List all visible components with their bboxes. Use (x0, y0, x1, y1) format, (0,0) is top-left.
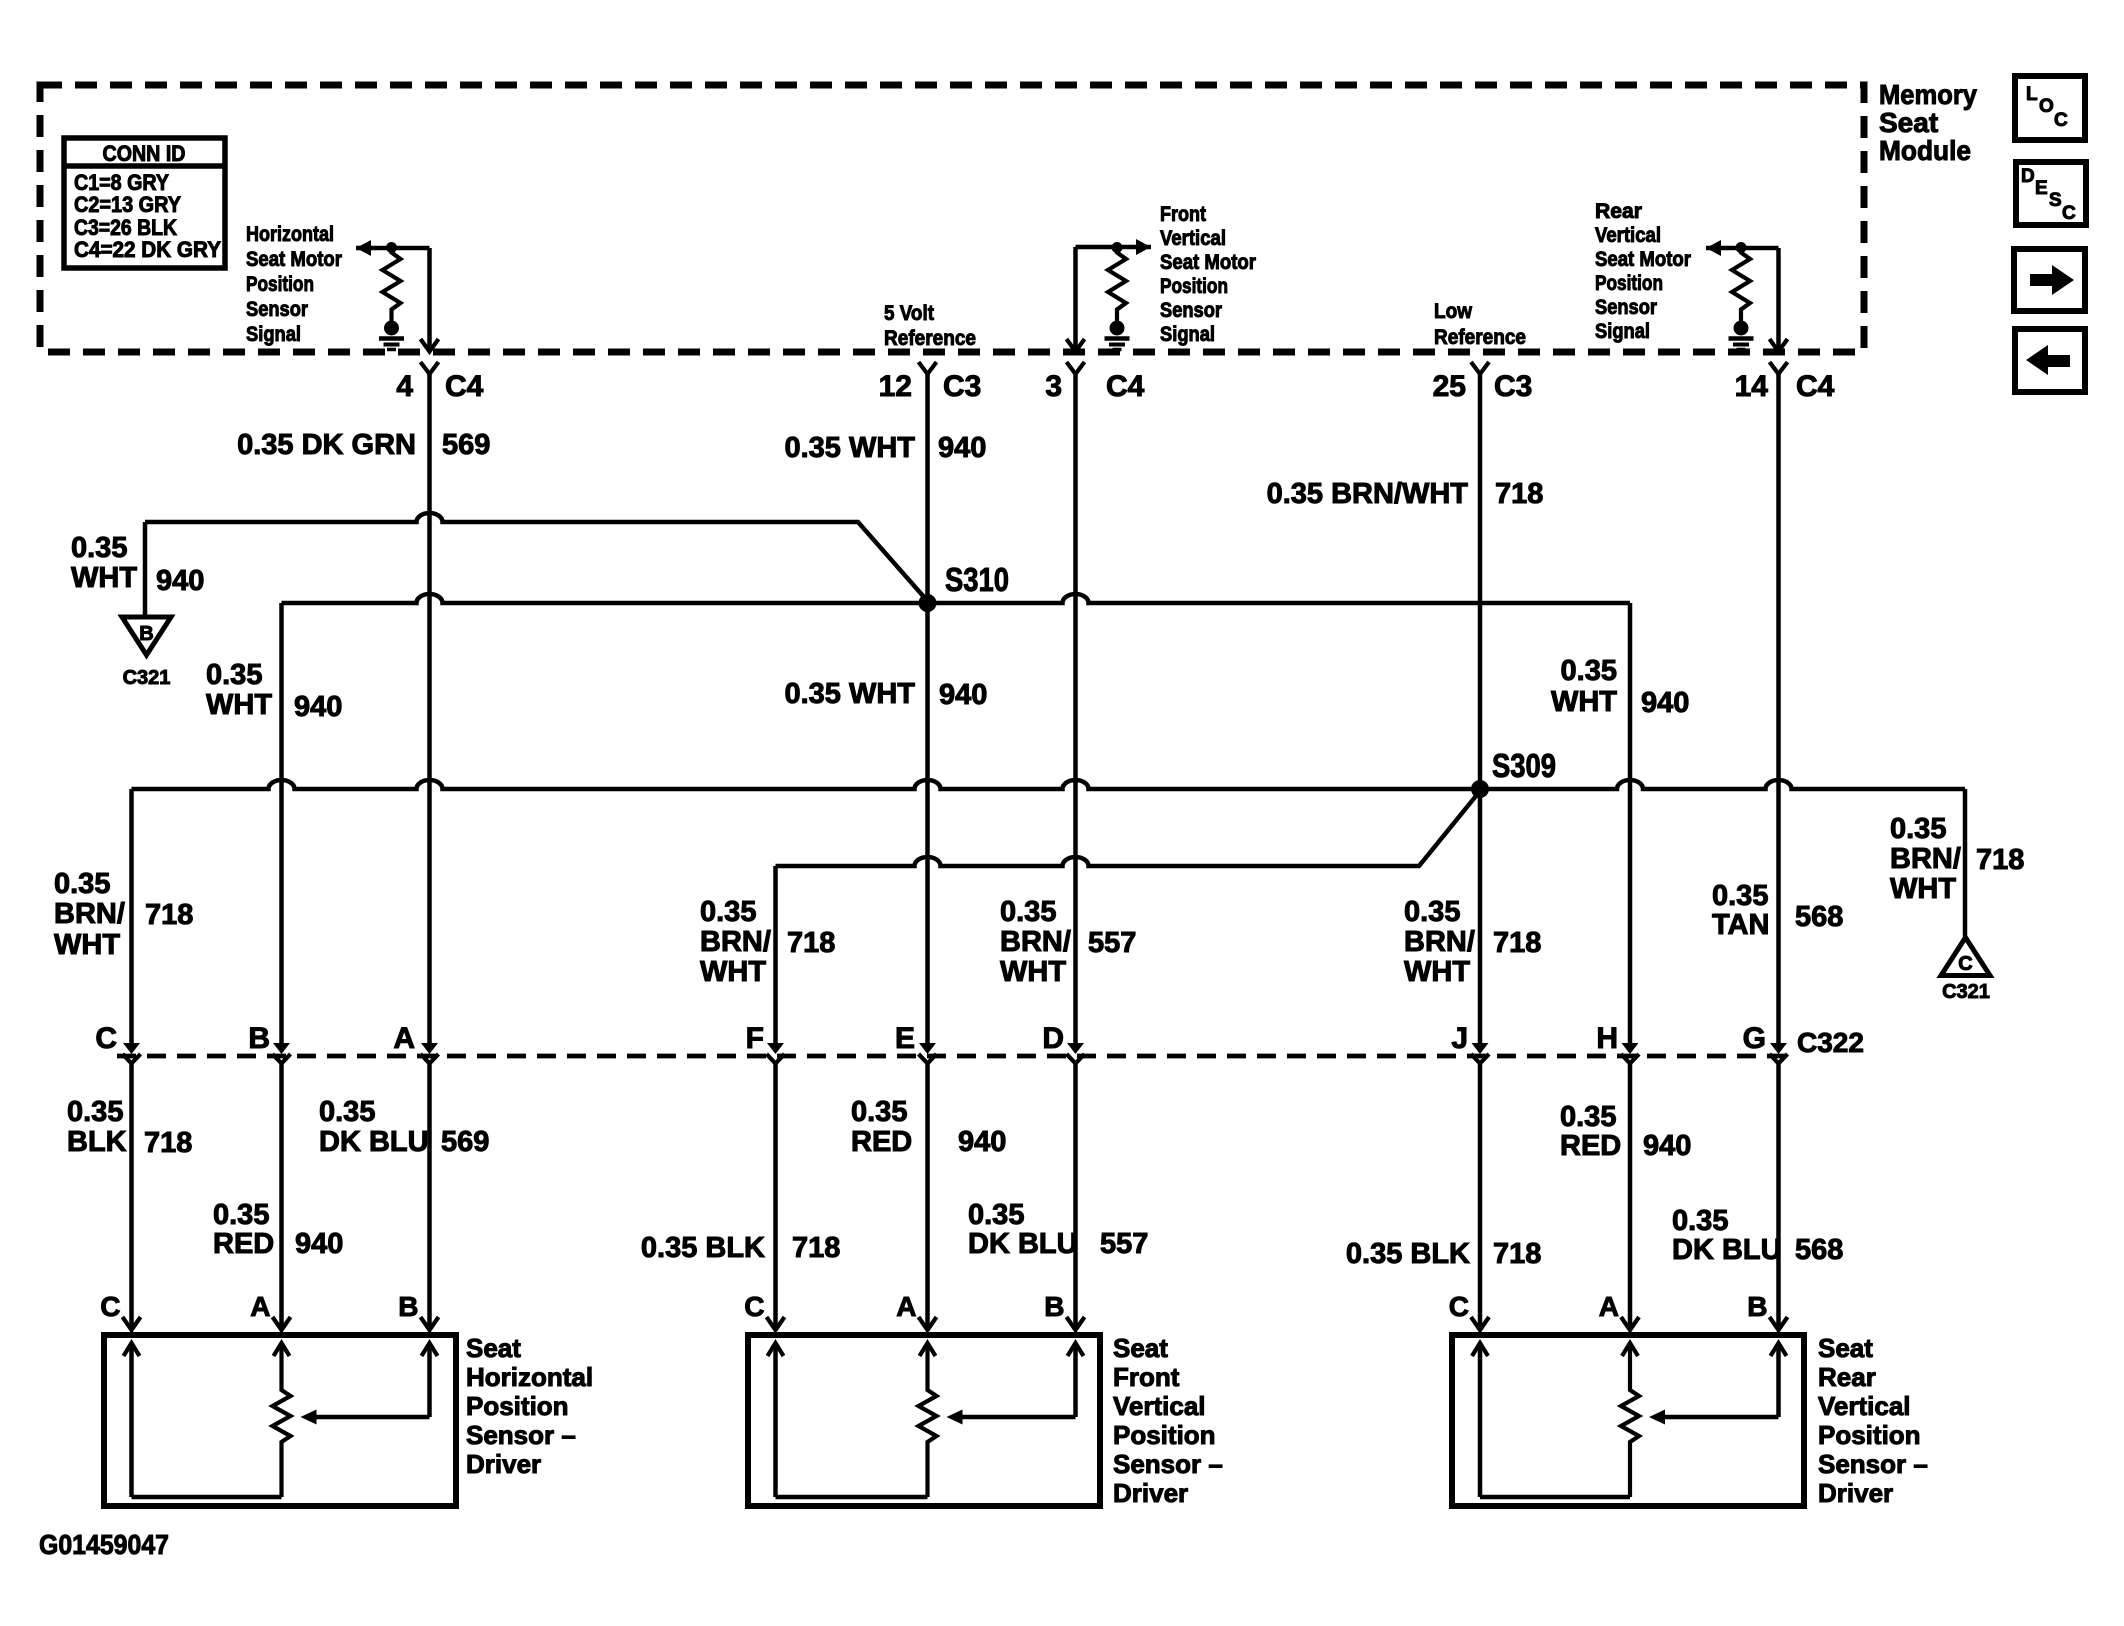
svg-text:G01459047: G01459047 (39, 1529, 169, 1560)
svg-text:BRN/: BRN/ (700, 926, 771, 958)
svg-text:WHT: WHT (1551, 686, 1617, 718)
svg-text:C: C (2062, 203, 2076, 224)
svg-text:Driver: Driver (1113, 1478, 1188, 1508)
svg-text:Sensor: Sensor (1595, 295, 1658, 319)
svg-text:0.35 WHT: 0.35 WHT (784, 678, 915, 710)
svg-text:Vertical: Vertical (1818, 1391, 1911, 1421)
svg-text:WHT: WHT (206, 689, 272, 721)
svg-text:B: B (398, 1291, 418, 1322)
svg-text:718: 718 (1493, 927, 1541, 959)
svg-text:BRN/: BRN/ (1890, 843, 1961, 875)
svg-text:Position: Position (246, 272, 314, 296)
svg-text:WHT: WHT (1890, 873, 1956, 905)
svg-text:TAN: TAN (1712, 909, 1769, 941)
svg-text:Seat: Seat (1818, 1333, 1873, 1363)
svg-text:WHT: WHT (54, 929, 120, 961)
svg-text:0.35 BRN/WHT: 0.35 BRN/WHT (1267, 478, 1469, 510)
svg-text:C4: C4 (1106, 370, 1145, 403)
svg-text:718: 718 (792, 1232, 840, 1264)
svg-text:0.35: 0.35 (851, 1096, 907, 1128)
svg-text:C: C (100, 1291, 120, 1322)
svg-text:RED: RED (851, 1126, 912, 1158)
svg-text:12: 12 (879, 370, 912, 403)
svg-text:BRN/: BRN/ (54, 898, 125, 930)
svg-text:D: D (2021, 166, 2035, 187)
svg-text:Rear: Rear (1595, 199, 1643, 223)
svg-text:Seat: Seat (1879, 107, 1938, 138)
svg-text:C2=13 GRY: C2=13 GRY (74, 192, 181, 217)
svg-text:RED: RED (213, 1228, 274, 1260)
svg-text:Seat Motor: Seat Motor (1595, 247, 1692, 271)
svg-text:Seat: Seat (466, 1333, 521, 1363)
svg-text:0.35: 0.35 (67, 1096, 123, 1128)
svg-text:D: D (1042, 1022, 1064, 1055)
svg-text:S310: S310 (945, 561, 1009, 598)
svg-text:Low: Low (1434, 299, 1472, 323)
svg-text:C: C (2054, 110, 2068, 131)
svg-text:Position: Position (1818, 1420, 1921, 1450)
svg-text:569: 569 (442, 429, 490, 461)
svg-text:0.35 WHT: 0.35 WHT (784, 432, 915, 464)
svg-text:940: 940 (295, 1228, 343, 1260)
svg-text:WHT: WHT (700, 956, 766, 988)
svg-text:C: C (95, 1022, 117, 1055)
svg-text:C3: C3 (1494, 370, 1532, 403)
svg-text:C: C (744, 1291, 764, 1322)
svg-text:DK BLU: DK BLU (319, 1126, 429, 1158)
svg-text:O: O (2039, 96, 2054, 117)
svg-text:25: 25 (1433, 370, 1466, 403)
svg-text:557: 557 (1088, 927, 1136, 959)
svg-text:940: 940 (1641, 687, 1689, 719)
svg-text:DK BLU: DK BLU (1672, 1234, 1782, 1266)
svg-text:BRN/: BRN/ (1404, 926, 1475, 958)
svg-text:557: 557 (1100, 1228, 1148, 1260)
svg-text:Signal: Signal (1160, 322, 1215, 346)
svg-text:C4: C4 (1796, 370, 1835, 403)
svg-text:F: F (746, 1022, 764, 1055)
svg-text:BLK: BLK (67, 1126, 127, 1158)
svg-text:0.35 BLK: 0.35 BLK (641, 1232, 765, 1264)
svg-text:718: 718 (1493, 1238, 1541, 1270)
svg-text:0.35: 0.35 (206, 659, 262, 691)
svg-text:940: 940 (1643, 1130, 1691, 1162)
svg-text:Module: Module (1879, 135, 1971, 166)
svg-text:Vertical: Vertical (1160, 226, 1226, 250)
svg-text:0.35: 0.35 (968, 1199, 1024, 1231)
svg-text:Driver: Driver (466, 1449, 541, 1479)
svg-text:WHT: WHT (1404, 956, 1470, 988)
svg-text:0.35: 0.35 (1561, 655, 1617, 687)
svg-text:568: 568 (1795, 1234, 1843, 1266)
svg-text:Reference: Reference (1434, 325, 1526, 349)
svg-text:569: 569 (441, 1126, 489, 1158)
svg-text:B: B (139, 623, 153, 645)
svg-text:14: 14 (1735, 370, 1769, 403)
svg-text:Position: Position (1595, 271, 1663, 295)
svg-text:Sensor –: Sensor – (1113, 1449, 1223, 1479)
svg-text:0.35: 0.35 (1404, 896, 1460, 928)
svg-text:0.35: 0.35 (54, 868, 110, 900)
svg-text:C: C (1958, 953, 1972, 975)
svg-text:Seat: Seat (1113, 1333, 1168, 1363)
svg-text:Driver: Driver (1818, 1478, 1893, 1508)
svg-text:A: A (1599, 1291, 1619, 1322)
svg-text:J: J (1451, 1022, 1468, 1055)
svg-text:0.35: 0.35 (1560, 1101, 1616, 1133)
svg-text:Seat Motor: Seat Motor (1160, 250, 1257, 274)
svg-text:G: G (1743, 1022, 1766, 1055)
svg-text:L: L (2026, 84, 2038, 105)
svg-text:E: E (895, 1022, 915, 1055)
svg-text:Signal: Signal (246, 322, 301, 346)
svg-text:Position: Position (1160, 274, 1228, 298)
svg-text:0.35: 0.35 (700, 896, 756, 928)
svg-text:3: 3 (1045, 370, 1062, 403)
svg-text:C: C (1449, 1291, 1469, 1322)
svg-text:Sensor –: Sensor – (1818, 1449, 1928, 1479)
svg-text:Horizontal: Horizontal (466, 1362, 593, 1392)
svg-text:B: B (1747, 1291, 1767, 1322)
svg-text:CONN ID: CONN ID (103, 141, 186, 166)
svg-text:0.35: 0.35 (71, 532, 127, 564)
svg-text:0.35 BLK: 0.35 BLK (1346, 1238, 1470, 1270)
svg-text:718: 718 (787, 927, 835, 959)
svg-text:940: 940 (958, 1126, 1006, 1158)
svg-text:C321: C321 (1942, 981, 1990, 1003)
svg-text:WHT: WHT (1000, 956, 1066, 988)
svg-text:0.35 DK GRN: 0.35 DK GRN (237, 429, 416, 461)
svg-text:940: 940 (294, 691, 342, 723)
svg-text:Memory: Memory (1879, 79, 1977, 110)
svg-text:718: 718 (145, 899, 193, 931)
svg-text:C4=22 DK GRY: C4=22 DK GRY (74, 237, 221, 262)
svg-text:H: H (1596, 1022, 1618, 1055)
svg-text:Sensor: Sensor (246, 297, 309, 321)
svg-text:C3: C3 (943, 370, 981, 403)
svg-text:718: 718 (144, 1127, 192, 1159)
svg-text:Front: Front (1160, 202, 1206, 226)
svg-text:940: 940 (939, 679, 987, 711)
svg-text:S: S (2049, 190, 2062, 211)
svg-text:568: 568 (1795, 901, 1843, 933)
svg-text:0.35: 0.35 (1890, 813, 1946, 845)
svg-text:4: 4 (396, 370, 413, 403)
svg-text:WHT: WHT (71, 562, 137, 594)
svg-text:Vertical: Vertical (1595, 223, 1661, 247)
svg-text:S309: S309 (1492, 747, 1556, 784)
svg-text:Rear: Rear (1818, 1362, 1876, 1392)
svg-text:Sensor –: Sensor – (466, 1420, 576, 1450)
svg-text:B: B (248, 1022, 270, 1055)
svg-text:DK BLU: DK BLU (968, 1228, 1078, 1260)
svg-text:A: A (896, 1291, 916, 1322)
svg-text:Horizontal: Horizontal (246, 222, 334, 246)
svg-text:Position: Position (466, 1391, 569, 1421)
svg-text:718: 718 (1976, 844, 2024, 876)
svg-text:C322: C322 (1797, 1027, 1864, 1058)
svg-text:0.35: 0.35 (1672, 1205, 1728, 1237)
svg-text:0.35: 0.35 (213, 1199, 269, 1231)
svg-text:RED: RED (1560, 1130, 1621, 1162)
svg-text:Position: Position (1113, 1420, 1216, 1450)
svg-text:BRN/: BRN/ (1000, 926, 1071, 958)
svg-text:Front: Front (1113, 1362, 1180, 1392)
svg-text:Sensor: Sensor (1160, 298, 1223, 322)
svg-text:Vertical: Vertical (1113, 1391, 1206, 1421)
svg-text:C4: C4 (445, 370, 484, 403)
svg-text:Seat Motor: Seat Motor (246, 247, 343, 271)
svg-text:Reference: Reference (884, 326, 976, 350)
svg-text:718: 718 (1495, 478, 1543, 510)
svg-text:E: E (2035, 178, 2048, 199)
svg-text:C321: C321 (123, 667, 171, 689)
svg-text:B: B (1044, 1291, 1064, 1322)
svg-text:Signal: Signal (1595, 319, 1650, 343)
svg-text:0.35: 0.35 (1712, 880, 1768, 912)
svg-text:0.35: 0.35 (1000, 896, 1056, 928)
svg-text:940: 940 (156, 565, 204, 597)
svg-text:0.35: 0.35 (319, 1096, 375, 1128)
svg-text:940: 940 (938, 432, 986, 464)
svg-text:A: A (393, 1022, 415, 1055)
svg-text:5 Volt: 5 Volt (884, 301, 934, 325)
svg-text:A: A (250, 1291, 270, 1322)
